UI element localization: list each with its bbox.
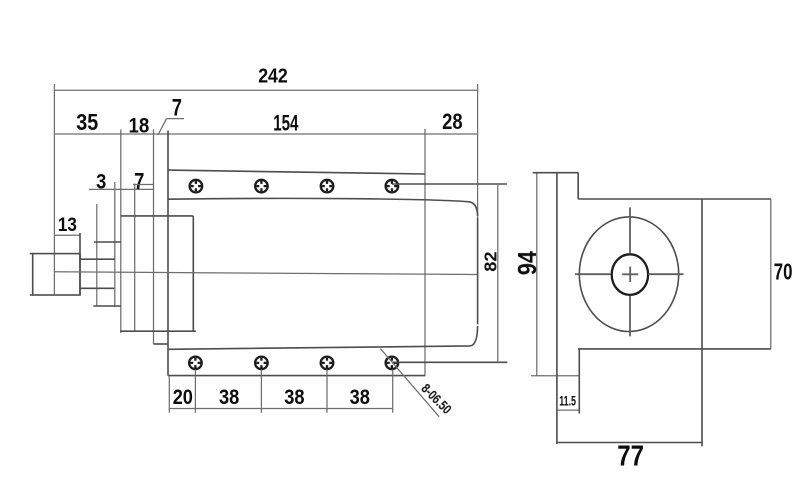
svg-text:7: 7: [172, 95, 182, 122]
bottom hole 4: [386, 357, 399, 370]
top edge + 94 ext: [533, 172, 579, 174]
svg-text:13: 13: [58, 214, 77, 236]
dim 242 left extension: [53, 84, 55, 294]
extension x=96.8: [96, 204, 98, 306]
dim 3-7 line: [89, 188, 154, 190]
tick x=153.5 / plate B right edge: [153, 129, 155, 344]
block divider x=80: [79, 233, 81, 295]
svg-text:28: 28: [442, 109, 463, 134]
leader diagonal for 7: [158, 119, 167, 135]
svg-text:35: 35: [76, 109, 98, 135]
collar top: [94, 241, 121, 243]
right edge: [701, 199, 703, 446]
block bottom overshoot: [30, 294, 33, 296]
tick x=120.8 / plate B left edge: [120, 129, 122, 333]
hole leader 8-06.50: [380, 349, 439, 417]
70 dim line: [770, 199, 772, 349]
bottom hole 1: [189, 357, 202, 370]
svg-text:94: 94: [514, 250, 542, 275]
82 bottom extension: [392, 361, 507, 363]
plate C rect: [120, 216, 196, 331]
extension x=114.8: [114, 182, 116, 307]
tick hole2: [260, 369, 262, 412]
bottom flange bottom line: [168, 375, 425, 377]
82 dim line: [497, 184, 499, 362]
bottom step horizontal + 70 ext: [578, 348, 771, 350]
svg-text:242: 242: [258, 64, 288, 87]
leader landing for 7: [167, 118, 185, 120]
tick x=169.3: [168, 376, 170, 413]
center plus vertical: [629, 267, 631, 282]
svg-text:154: 154: [273, 110, 299, 135]
thin shaft top: [80, 258, 115, 260]
svg-text:38: 38: [219, 386, 240, 409]
block top overshoot: [30, 253, 33, 255]
extension x=134.7: [134, 184, 136, 332]
body left edge x=168: [167, 131, 169, 376]
tick hole1: [194, 369, 196, 412]
left edge: [556, 173, 558, 444]
top hole 4: [386, 180, 399, 193]
bottom hole 3: [321, 357, 334, 370]
svg-text:38: 38: [284, 386, 305, 409]
tick hole4: [392, 369, 394, 412]
small circle: [612, 254, 648, 295]
thin shaft bottom: [80, 287, 114, 289]
dim row 35/18/7/154/28 line: [54, 133, 477, 135]
center plus horizontal: [622, 273, 638, 275]
dim 242 right extension: [477, 84, 479, 218]
94 dim line: [536, 173, 538, 376]
body top edge + 70 ext: [578, 198, 771, 200]
top hole 2: [255, 180, 268, 193]
bottom dim line 20/38/38/38: [169, 408, 392, 410]
top step vertical: [577, 173, 579, 199]
crosshair horizontal left: [575, 273, 611, 275]
svg-text:7: 7: [134, 168, 144, 194]
top hole 3: [321, 180, 334, 193]
body right edge: [477, 218, 479, 324]
shaft end block: [33, 254, 80, 295]
big circle: [579, 217, 678, 332]
82 top extension: [392, 183, 507, 185]
bottom hole 2: [255, 357, 268, 370]
body bottom edge with rounded right corner: [168, 326, 478, 349]
svg-text:82: 82: [481, 251, 501, 271]
11.5 dim line: [557, 409, 579, 411]
body top edge with rounded right corner: [168, 198, 478, 216]
svg-text:3: 3: [96, 169, 106, 193]
bottom step vertical: [578, 349, 580, 414]
bottom edge + 77 dim line: [557, 442, 703, 444]
crosshair vertical top: [629, 207, 631, 253]
collar bottom: [93, 305, 121, 307]
svg-text:11.5: 11.5: [559, 393, 576, 408]
dim 242 line: [54, 89, 477, 91]
svg-text:70: 70: [774, 259, 793, 285]
94 bottom ext: [531, 375, 579, 377]
crosshair vertical bottom: [629, 296, 631, 337]
stub y=184.5: [133, 184, 154, 186]
plate step y=344: [154, 343, 169, 345]
crosshair horizontal right: [648, 273, 684, 275]
axis center line: [54, 272, 477, 275]
svg-text:20: 20: [173, 386, 193, 409]
svg-text:18: 18: [129, 115, 150, 138]
top hole 1: [190, 180, 203, 193]
svg-text:77: 77: [617, 440, 644, 472]
svg-text:38: 38: [350, 386, 371, 409]
flange top line: [168, 170, 425, 174]
extension x=425: [424, 129, 426, 376]
dim 13 line: [54, 234, 80, 236]
tick hole3: [326, 369, 328, 412]
